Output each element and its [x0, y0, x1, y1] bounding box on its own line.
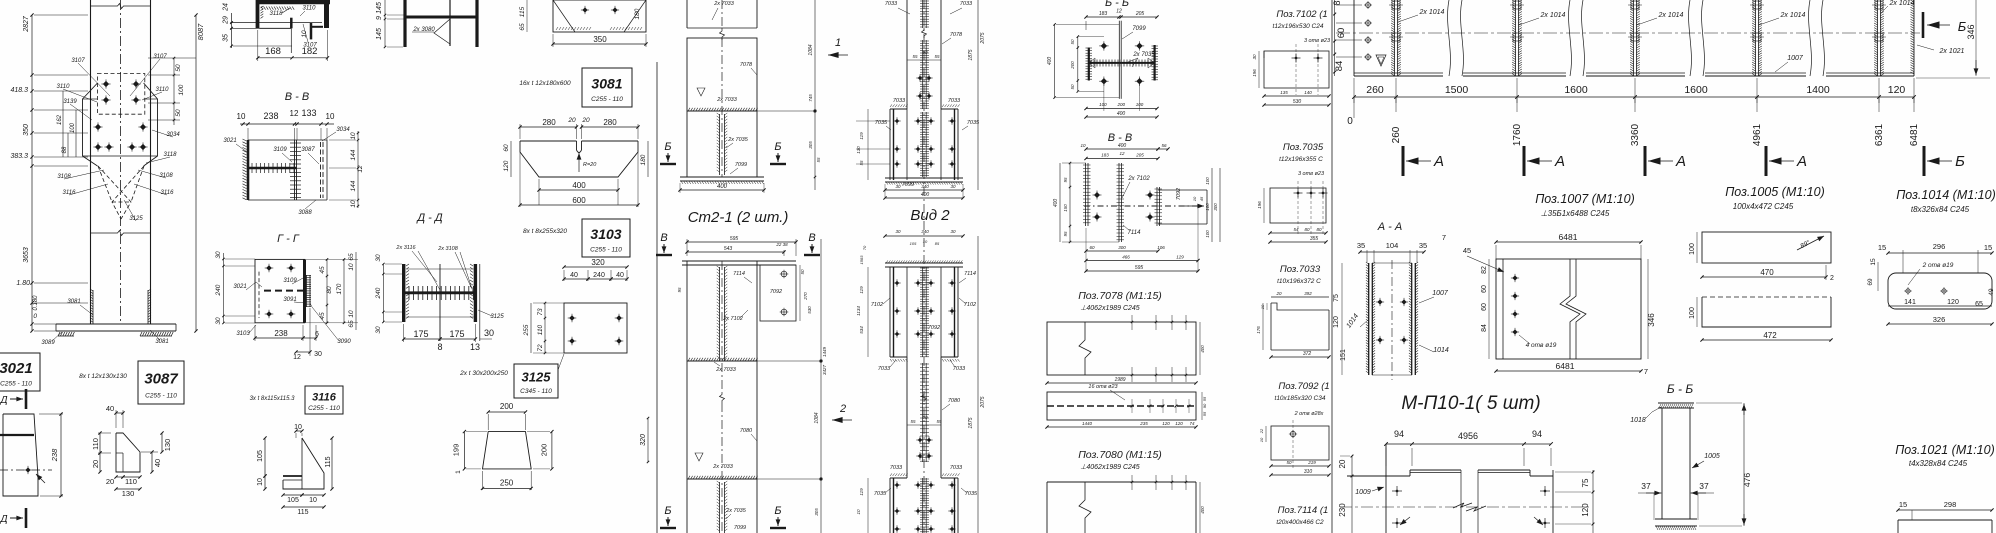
- svg-text:150: 150: [1063, 204, 1068, 212]
- svg-text:120: 120: [1162, 421, 1170, 426]
- svg-text:200: 200: [1070, 61, 1075, 70]
- svg-text:305: 305: [814, 508, 819, 516]
- svg-text:1989: 1989: [1114, 377, 1125, 383]
- svg-text:3107: 3107: [153, 54, 167, 60]
- svg-text:16х t 12х180х600: 16х t 12х180х600: [519, 80, 571, 87]
- svg-text:3081: 3081: [67, 299, 80, 305]
- svg-text:Поз.7092 (1: Поз.7092 (1: [1278, 381, 1329, 392]
- svg-text:7080: 7080: [948, 398, 961, 404]
- svg-text:65: 65: [1975, 301, 1983, 308]
- svg-text:1009: 1009: [1355, 489, 1371, 496]
- svg-text:75: 75: [1581, 478, 1590, 487]
- svg-text:55: 55: [912, 54, 918, 59]
- svg-text:95: 95: [677, 287, 682, 293]
- svg-text:346: 346: [1647, 313, 1656, 327]
- svg-text:2х 7033: 2х 7033: [713, 1, 735, 7]
- svg-text:280: 280: [603, 118, 617, 127]
- svg-text:7033: 7033: [950, 465, 963, 471]
- svg-text:219: 219: [1307, 460, 1316, 465]
- svg-text:120: 120: [1581, 503, 1590, 517]
- svg-text:3125: 3125: [129, 216, 143, 222]
- svg-text:10: 10: [350, 132, 357, 140]
- svg-text:А: А: [1796, 153, 1807, 170]
- svg-text:530: 530: [807, 306, 812, 314]
- svg-text:Поз.7078 (М1:15): Поз.7078 (М1:15): [1078, 290, 1162, 302]
- svg-text:238: 238: [274, 329, 288, 338]
- svg-text:7: 7: [1442, 233, 1446, 242]
- svg-text:50: 50: [1286, 460, 1292, 465]
- svg-text:А: А: [1675, 153, 1686, 170]
- svg-text:Поз.7033: Поз.7033: [1280, 264, 1321, 275]
- svg-text:54: 54: [1293, 227, 1299, 232]
- svg-text:530: 530: [1293, 99, 1302, 105]
- svg-text:7033: 7033: [960, 1, 973, 7]
- svg-text:40: 40: [106, 404, 114, 413]
- svg-text:3110: 3110: [303, 6, 317, 12]
- svg-text:В: В: [660, 232, 667, 244]
- svg-text:Поз.7114 (1: Поз.7114 (1: [1278, 505, 1329, 516]
- svg-text:470: 470: [1760, 268, 1774, 277]
- svg-text:3034: 3034: [166, 132, 180, 138]
- svg-text:82: 82: [1481, 266, 1488, 274]
- svg-text:110: 110: [537, 324, 544, 335]
- svg-text:Поз.7080 (М1:15): Поз.7080 (М1:15): [1078, 449, 1162, 461]
- svg-text:С345 - 110: С345 - 110: [520, 388, 552, 395]
- svg-text:1.80: 1.80: [16, 280, 30, 287]
- svg-text:476: 476: [1742, 473, 1752, 487]
- svg-text:144: 144: [350, 149, 357, 160]
- svg-text:65: 65: [519, 23, 526, 31]
- svg-text:110: 110: [125, 477, 137, 486]
- svg-text:12: 12: [293, 354, 301, 361]
- svg-text:Поз.7102 (1: Поз.7102 (1: [1276, 9, 1327, 20]
- svg-text:595: 595: [730, 236, 739, 242]
- svg-text:50: 50: [1070, 39, 1075, 45]
- svg-text:60: 60: [1089, 245, 1095, 250]
- svg-text:3360: 3360: [1630, 123, 1641, 146]
- svg-text:Б: Б: [774, 505, 781, 517]
- svg-text:3427: 3427: [822, 364, 827, 375]
- svg-text:С255 - 110: С255 - 110: [145, 393, 177, 400]
- svg-text:7033: 7033: [948, 98, 961, 104]
- svg-text:90: 90: [922, 415, 928, 420]
- svg-text:Поз.1014 (М1:10): Поз.1014 (М1:10): [1896, 188, 1996, 202]
- svg-text:50: 50: [175, 64, 182, 72]
- svg-text:2х 1014: 2х 1014: [1658, 12, 1684, 19]
- svg-text:130: 130: [122, 489, 135, 498]
- svg-text:Поз.7035: Поз.7035: [1283, 142, 1324, 153]
- svg-text:100: 100: [1689, 243, 1696, 255]
- svg-text:37: 37: [1699, 481, 1709, 491]
- svg-text:100: 100: [1136, 102, 1144, 107]
- svg-text:Б: Б: [664, 505, 671, 517]
- svg-text:340: 340: [921, 184, 929, 189]
- svg-text:100: 100: [1099, 102, 1107, 107]
- svg-text:56: 56: [1161, 143, 1167, 148]
- svg-text:2х 7035: 2х 7035: [727, 137, 749, 143]
- svg-text:10: 10: [348, 310, 355, 318]
- svg-text:Д: Д: [0, 395, 8, 406]
- svg-text:3109: 3109: [273, 147, 287, 153]
- svg-text:100х4х472 С245: 100х4х472 С245: [1733, 202, 1794, 211]
- svg-text:182: 182: [302, 46, 318, 57]
- svg-text:94: 94: [1532, 429, 1542, 439]
- svg-text:144: 144: [350, 180, 357, 191]
- svg-text:t12х196х355 С: t12х196х355 С: [1279, 156, 1323, 163]
- svg-text:1449: 1449: [822, 346, 827, 357]
- svg-text:180: 180: [634, 8, 641, 19]
- svg-text:10: 10: [1260, 304, 1265, 309]
- svg-text:200: 200: [1116, 102, 1125, 107]
- svg-text:3118: 3118: [164, 152, 178, 158]
- svg-text:3090: 3090: [337, 339, 351, 345]
- svg-text:40: 40: [570, 272, 578, 279]
- svg-text:2х 7102: 2х 7102: [1127, 176, 1150, 182]
- svg-text:120: 120: [503, 160, 510, 171]
- svg-text:350: 350: [23, 124, 30, 136]
- svg-text:392: 392: [1304, 291, 1312, 296]
- svg-text:35: 35: [223, 34, 230, 42]
- svg-text:3125: 3125: [490, 314, 504, 320]
- svg-text:2 отв ø19: 2 отв ø19: [1922, 262, 1954, 269]
- svg-text:400: 400: [921, 192, 930, 198]
- svg-text:168: 168: [265, 46, 281, 57]
- svg-text:20: 20: [91, 460, 100, 468]
- svg-text:55: 55: [1202, 411, 1207, 416]
- svg-text:20: 20: [1338, 459, 1347, 468]
- svg-text:7035: 7035: [965, 491, 978, 497]
- svg-text:0.180: 0.180: [33, 295, 39, 311]
- svg-text:104: 104: [1386, 241, 1399, 250]
- svg-text:1600: 1600: [1684, 84, 1708, 96]
- svg-text:7102: 7102: [871, 302, 883, 308]
- svg-text:1760: 1760: [1512, 123, 1523, 146]
- svg-text:106: 106: [1157, 245, 1165, 250]
- svg-text:Поз.1007 (М1:10): Поз.1007 (М1:10): [1535, 192, 1635, 206]
- svg-text:151: 151: [1340, 349, 1347, 361]
- svg-text:2х 1021: 2х 1021: [1939, 48, 1965, 55]
- svg-text:6481: 6481: [1559, 232, 1578, 242]
- svg-text:15: 15: [1878, 243, 1886, 252]
- svg-text:1084: 1084: [808, 44, 814, 55]
- svg-text:3118: 3118: [270, 11, 284, 17]
- svg-text:24: 24: [223, 3, 230, 12]
- svg-text:А - А: А - А: [1377, 221, 1402, 233]
- svg-text:1: 1: [455, 470, 462, 474]
- svg-text:238: 238: [263, 111, 278, 121]
- svg-text:119: 119: [859, 132, 864, 140]
- svg-text:7033: 7033: [878, 366, 891, 372]
- svg-text:М-П10-1( 5 шт): М-П10-1( 5 шт): [1401, 393, 1540, 414]
- svg-text:2х 1014: 2х 1014: [1889, 0, 1915, 7]
- svg-text:t10х185х320 С34: t10х185х320 С34: [1275, 395, 1326, 402]
- svg-text:15: 15: [1899, 500, 1907, 509]
- svg-text:7099: 7099: [1132, 26, 1146, 32]
- svg-text:9: 9: [376, 16, 383, 20]
- svg-text:400: 400: [572, 181, 586, 190]
- svg-text:7099: 7099: [734, 525, 746, 531]
- svg-text:30: 30: [1252, 54, 1257, 60]
- svg-text:2х 3108: 2х 3108: [437, 246, 459, 252]
- svg-text:7092: 7092: [928, 325, 940, 331]
- svg-text:1014: 1014: [1433, 347, 1449, 354]
- svg-text:t20х400х466 С2: t20х400х466 С2: [1276, 519, 1324, 526]
- svg-text:7114: 7114: [964, 271, 976, 277]
- svg-text:10: 10: [1192, 196, 1197, 201]
- svg-text:8087: 8087: [196, 23, 205, 41]
- svg-text:55: 55: [1202, 396, 1207, 401]
- svg-text:Б: Б: [774, 141, 781, 153]
- svg-text:29: 29: [223, 16, 230, 25]
- svg-text:45: 45: [1199, 196, 1204, 201]
- svg-text:12: 12: [290, 109, 299, 118]
- svg-text:3653: 3653: [23, 247, 30, 263]
- svg-text:346: 346: [1966, 24, 1976, 39]
- svg-text:30: 30: [375, 254, 382, 262]
- svg-text:240: 240: [593, 272, 605, 279]
- svg-text:100: 100: [1205, 203, 1210, 211]
- svg-text:69: 69: [1867, 278, 1874, 286]
- svg-text:3081: 3081: [155, 339, 168, 345]
- svg-text:1084: 1084: [814, 412, 820, 423]
- svg-text:255: 255: [523, 324, 530, 336]
- svg-text:2827: 2827: [23, 15, 30, 33]
- svg-text:2075: 2075: [980, 32, 986, 44]
- svg-text:⊥4062х1989 С245: ⊥4062х1989 С245: [1080, 305, 1140, 312]
- svg-text:3088: 3088: [298, 210, 312, 216]
- svg-text:Поз.1021 (М1:10): Поз.1021 (М1:10): [1895, 443, 1995, 457]
- svg-text:60: 60: [1481, 303, 1488, 311]
- svg-text:⊥35Б1х6488 С245: ⊥35Б1х6488 С245: [1541, 209, 1610, 218]
- svg-text:130: 130: [856, 146, 861, 154]
- svg-text:119: 119: [859, 488, 864, 496]
- svg-text:472: 472: [1763, 331, 1777, 340]
- svg-text:240: 240: [375, 287, 382, 299]
- svg-text:С255 - 110: С255 - 110: [591, 96, 623, 103]
- svg-text:105: 105: [257, 450, 264, 462]
- svg-text:50: 50: [1070, 84, 1075, 90]
- svg-text:94: 94: [1394, 429, 1404, 439]
- svg-text:22: 22: [1259, 428, 1264, 434]
- svg-text:200: 200: [540, 444, 549, 457]
- svg-text:⊥4062х1989 С245: ⊥4062х1989 С245: [1080, 464, 1140, 471]
- svg-text:0: 0: [1347, 116, 1353, 127]
- svg-text:16 отв ø23: 16 отв ø23: [1088, 384, 1118, 390]
- svg-text:0: 0: [33, 313, 37, 320]
- svg-text:10: 10: [257, 478, 264, 486]
- svg-text:3х t 8х115х115.3: 3х t 8х115х115.3: [250, 396, 295, 402]
- svg-text:73: 73: [537, 308, 544, 316]
- svg-text:1005: 1005: [1704, 453, 1720, 460]
- svg-text:300: 300: [1118, 245, 1126, 250]
- svg-text:105: 105: [910, 241, 917, 246]
- svg-text:50: 50: [175, 109, 182, 117]
- svg-text:400: 400: [1118, 143, 1127, 149]
- svg-text:534: 534: [859, 326, 864, 334]
- svg-text:30: 30: [314, 351, 322, 358]
- svg-text:10: 10: [350, 200, 357, 208]
- svg-text:110: 110: [91, 438, 100, 450]
- svg-text:45: 45: [1463, 246, 1471, 255]
- svg-text:15: 15: [1870, 258, 1877, 266]
- svg-text:298: 298: [1944, 500, 1957, 509]
- svg-text:145: 145: [376, 28, 383, 40]
- svg-text:10: 10: [309, 497, 317, 504]
- svg-text:350: 350: [593, 35, 607, 44]
- svg-text:10: 10: [923, 239, 928, 244]
- svg-text:115: 115: [519, 6, 526, 17]
- svg-text:3 отв ø23: 3 отв ø23: [1298, 171, 1325, 177]
- svg-text:10: 10: [326, 112, 335, 121]
- svg-text:140: 140: [1304, 90, 1312, 95]
- svg-text:В - В: В - В: [285, 91, 309, 103]
- svg-text:120: 120: [1333, 316, 1340, 328]
- svg-text:176: 176: [1256, 326, 1261, 334]
- svg-text:2х 1014: 2х 1014: [1419, 9, 1445, 16]
- svg-text:100: 100: [70, 122, 76, 133]
- svg-text:3087: 3087: [144, 370, 178, 387]
- svg-text:А: А: [1433, 153, 1444, 170]
- svg-text:80: 80: [326, 286, 333, 294]
- svg-text:10: 10: [1259, 437, 1264, 442]
- svg-text:R=20: R=20: [583, 162, 597, 168]
- svg-text:7080: 7080: [740, 428, 753, 434]
- svg-text:400: 400: [1200, 506, 1205, 514]
- svg-text:250: 250: [500, 478, 514, 487]
- svg-text:260: 260: [1366, 84, 1384, 96]
- svg-text:1440: 1440: [1082, 421, 1093, 426]
- svg-text:141: 141: [1904, 299, 1916, 306]
- svg-text:3021: 3021: [233, 284, 246, 290]
- svg-text:7102: 7102: [964, 302, 976, 308]
- svg-text:50: 50: [800, 269, 805, 275]
- svg-text:100: 100: [1205, 230, 1210, 238]
- svg-text:130: 130: [163, 439, 172, 452]
- svg-text:1600: 1600: [1564, 84, 1588, 96]
- svg-text:1007: 1007: [1432, 290, 1449, 297]
- svg-text:3109: 3109: [283, 278, 297, 284]
- svg-text:170: 170: [336, 283, 343, 294]
- svg-text:2х 1014: 2х 1014: [1540, 12, 1566, 19]
- svg-text:30: 30: [375, 326, 382, 334]
- svg-text:t12х196х530 С24: t12х196х530 С24: [1273, 23, 1324, 30]
- svg-text:3125: 3125: [522, 370, 552, 385]
- svg-text:65: 65: [348, 320, 355, 328]
- svg-text:7078: 7078: [950, 32, 963, 38]
- svg-text:2: 2: [1830, 275, 1834, 282]
- svg-text:120: 120: [1175, 421, 1183, 426]
- svg-text:40: 40: [153, 459, 162, 467]
- svg-text:7114: 7114: [733, 271, 745, 277]
- svg-text:88: 88: [62, 146, 68, 153]
- svg-text:8: 8: [437, 342, 442, 352]
- svg-text:2075: 2075: [980, 396, 986, 408]
- svg-text:3103: 3103: [236, 331, 250, 337]
- svg-text:145: 145: [376, 2, 383, 14]
- svg-text:260: 260: [1391, 126, 1402, 143]
- svg-text:135: 135: [1280, 90, 1288, 95]
- svg-text:45: 45: [319, 312, 326, 320]
- svg-text:10: 10: [1080, 143, 1086, 148]
- svg-text:30: 30: [895, 184, 901, 189]
- svg-text:Б - Б: Б - Б: [1667, 382, 1693, 396]
- svg-text:20: 20: [581, 117, 590, 124]
- svg-text:205: 205: [1135, 153, 1144, 158]
- svg-text:418.3: 418.3: [10, 87, 28, 94]
- svg-text:1583: 1583: [859, 255, 864, 265]
- svg-text:10: 10: [348, 263, 355, 271]
- svg-text:3087: 3087: [301, 147, 315, 153]
- svg-text:40: 40: [616, 272, 624, 279]
- svg-text:200: 200: [500, 402, 514, 411]
- svg-text:Б: Б: [664, 141, 671, 153]
- svg-text:400: 400: [1047, 57, 1053, 66]
- svg-text:В: В: [808, 232, 815, 244]
- svg-text:55: 55: [936, 419, 942, 424]
- svg-text:12: 12: [357, 165, 364, 173]
- svg-text:400: 400: [1117, 111, 1126, 117]
- svg-text:6481: 6481: [1909, 123, 1920, 146]
- svg-text:199: 199: [452, 444, 461, 457]
- svg-text:2х 7102: 2х 7102: [722, 316, 743, 322]
- svg-text:1400: 1400: [1806, 84, 1830, 96]
- svg-text:30: 30: [215, 317, 222, 325]
- svg-text:7099: 7099: [735, 162, 747, 168]
- svg-text:320: 320: [640, 434, 647, 446]
- svg-text:72: 72: [537, 344, 544, 352]
- svg-text:745: 745: [808, 94, 813, 102]
- svg-text:162: 162: [57, 114, 63, 125]
- svg-text:А: А: [1554, 153, 1565, 170]
- svg-text:400: 400: [1200, 345, 1205, 353]
- svg-text:Г - Г: Г - Г: [277, 233, 300, 245]
- svg-text:1500: 1500: [1445, 84, 1469, 96]
- svg-text:383.3: 383.3: [10, 153, 28, 160]
- svg-text:3081: 3081: [591, 75, 622, 91]
- svg-text:1007: 1007: [1787, 55, 1804, 62]
- svg-text:49: 49: [1988, 288, 1995, 296]
- svg-text:20: 20: [567, 117, 576, 124]
- svg-text:2х 7033: 2х 7033: [715, 367, 737, 373]
- svg-text:2 отв ø28х: 2 отв ø28х: [1294, 411, 1324, 417]
- svg-text:13: 13: [470, 342, 480, 352]
- svg-text:84: 84: [1481, 324, 1488, 332]
- svg-text:30: 30: [895, 229, 901, 234]
- svg-text:120: 120: [1888, 84, 1906, 96]
- svg-text:95: 95: [1063, 177, 1068, 183]
- svg-text:С255 - 110: С255 - 110: [590, 246, 622, 253]
- svg-text:60: 60: [1481, 285, 1488, 293]
- svg-text:355: 355: [1310, 236, 1319, 242]
- svg-text:С255 - 110: С255 - 110: [308, 405, 340, 412]
- svg-text:Ст2-1 (2 шт.): Ст2-1 (2 шт.): [688, 209, 789, 226]
- svg-text:115: 115: [325, 456, 332, 467]
- svg-text:2х 1014: 2х 1014: [1780, 12, 1806, 19]
- svg-text:Б: Б: [1955, 153, 1965, 170]
- svg-text:55: 55: [934, 54, 940, 59]
- svg-text:3116: 3116: [312, 392, 337, 404]
- svg-text:60: 60: [1336, 28, 1347, 39]
- svg-text:7092: 7092: [770, 289, 782, 295]
- svg-text:175: 175: [449, 329, 464, 339]
- svg-text:543: 543: [724, 246, 733, 252]
- svg-text:326: 326: [1933, 315, 1946, 324]
- svg-text:30: 30: [484, 328, 494, 338]
- svg-text:310: 310: [1304, 469, 1313, 475]
- svg-text:45: 45: [319, 266, 326, 274]
- svg-text:235: 235: [1139, 421, 1148, 426]
- svg-text:100: 100: [178, 84, 185, 95]
